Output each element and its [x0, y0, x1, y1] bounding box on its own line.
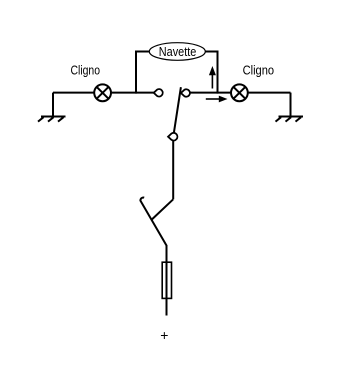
wire left rail (ground to left contact) [53, 92, 155, 94]
arrow up (current direction) [209, 66, 216, 89]
svg-text:+: + [160, 327, 168, 343]
svg-text:Cligno: Cligno [243, 64, 275, 78]
main switch blade (with hooked tip) [140, 197, 166, 245]
wire blade to battery [166, 245, 168, 316]
ground left (chassis) [38, 117, 66, 122]
wire from Navette left to left branch [135, 51, 150, 53]
wire right branch vertical [217, 51, 219, 94]
ground right (chassis) [276, 117, 304, 122]
switch contact left [154, 89, 163, 96]
node Navette (ellipse label) [149, 43, 205, 61]
wire from Navette right to right branch [205, 51, 218, 53]
lamp right (Cligno indicator) [231, 84, 248, 101]
svg-text:Cligno: Cligno [71, 64, 101, 78]
switch contact right [181, 89, 190, 96]
fuse F1 [162, 262, 171, 298]
arrow right (current direction) [206, 96, 228, 103]
wire pivot down [172, 140, 174, 199]
wire right rail (right contact to ground) [190, 92, 291, 94]
lamp left (Cligno indicator) [94, 84, 111, 101]
wire left branch vertical [135, 51, 137, 94]
switch pivot [168, 133, 177, 141]
svg-text:Navette: Navette [159, 45, 197, 59]
ground right riser [290, 93, 292, 117]
ground left riser [52, 93, 54, 117]
wire diagonal to main switch [152, 199, 173, 219]
switch lever (navette blade to right contact) [174, 87, 181, 133]
